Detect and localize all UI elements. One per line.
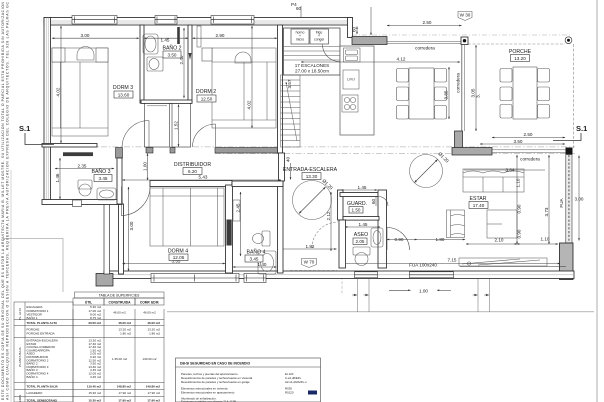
- dim 40 wall: [286, 156, 291, 179]
- svg-text:4.12: 4.12: [397, 57, 406, 62]
- svg-text:3.: 3.: [476, 94, 481, 98]
- cooktop: [342, 95, 358, 112]
- svg-text:12.50: 12.50: [201, 97, 213, 102]
- svg-text:60: 60: [296, 6, 302, 11]
- bano3 corredera pocket bar: [63, 152, 93, 156]
- bano4 bathtub: [258, 251, 276, 274]
- svg-text:1.00: 1.00: [143, 162, 148, 171]
- svg-text:1.10: 1.10: [541, 237, 550, 242]
- guard north wall: [340, 193, 378, 197]
- entrada west wall (bano4 east): [278, 181, 284, 273]
- dim 2.40 bano2: [179, 28, 184, 98]
- window W1 top: [72, 16, 117, 25]
- room label distribuidor: [174, 162, 211, 175]
- stair treads upper: [284, 47, 341, 61]
- top exterior wall: [44, 18, 352, 26]
- svg-text:TOTAL PLANTA BAJA: TOTAL PLANTA BAJA: [27, 385, 59, 389]
- svg-text:corredera: corredera: [520, 157, 540, 162]
- entry axis arrow line: [370, 7, 372, 35]
- dim 3.73 estar: [544, 155, 549, 244]
- porch roof dash-dot line: [352, 34, 570, 36]
- right exterior wall: [566, 155, 572, 244]
- svg-text:13.20: 13.20: [514, 56, 526, 61]
- dim 3.00 dorm4: [129, 187, 135, 271]
- svg-text:ENTRADA-ESCALERA: ENTRADA-ESCALERA: [283, 167, 338, 173]
- distribuidor north wall stub left: [146, 148, 153, 154]
- W70 banner: [302, 259, 317, 268]
- svg-text:1.45: 1.45: [161, 38, 170, 43]
- dim 3.00 dorm3: [52, 33, 139, 38]
- window bottom bano4: [244, 274, 266, 283]
- svg-text:DB-SI SEGURIDAD EN CASO DE: DB-SI SEGURIDAD EN CASO DE INCENDIO: [180, 362, 250, 366]
- svg-text:12.05: 12.05: [173, 255, 185, 260]
- distribuidor north wall stub right: [170, 148, 175, 154]
- svg-text:1.80 m2: 1.80 m2: [120, 331, 131, 335]
- svg-text:PORCHE ENTRADA: PORCHE ENTRADA: [27, 331, 55, 335]
- svg-text:1.45: 1.45: [358, 185, 367, 190]
- guard door arc small: [379, 197, 389, 207]
- svg-text:1.00: 1.00: [419, 288, 428, 293]
- svg-text:SEMIS.: SEMIS.: [18, 394, 22, 402]
- svg-text:TABLA DE SUPERFICIES: TABLA DE SUPERFICIES: [99, 294, 140, 298]
- svg-text:3.00: 3.00: [81, 33, 90, 38]
- svg-text:corredera: corredera: [456, 73, 461, 93]
- svg-text:ESTE DOCUMENTO ES COPIA DE SU: ESTE DOCUMENTO ES COPIA DE SU ORIGINAL D…: [1, 1, 5, 400]
- svg-text:corredera: corredera: [415, 46, 435, 51]
- window W3 top: [211, 16, 254, 25]
- partition bano2/dorm2: [188, 25, 192, 103]
- room label bano3: [91, 168, 112, 182]
- svg-text:Ø1.20: Ø1.20: [437, 151, 450, 164]
- leader L-line to table: [3, 239, 63, 293]
- section line S.1 dash across plan: [55, 146, 575, 148]
- svg-text:Elementos estructurales en apa: Elementos estructurales en aparcamiento: [181, 391, 235, 395]
- svg-text:BAÑO 2: BAÑO 2: [162, 45, 181, 52]
- dorm3 door arc: [122, 121, 149, 148]
- svg-text:micro: micro: [296, 38, 304, 42]
- svg-text:5.43: 5.43: [199, 175, 208, 180]
- dim 4.02 dorm3: [56, 26, 62, 143]
- svg-text:GUARD.: GUARD.: [347, 201, 367, 207]
- svg-text:3.50: 3.50: [514, 139, 523, 144]
- window W2 top: [155, 16, 177, 25]
- closet dorm3: [145, 104, 170, 148]
- P4 marker line: [291, 2, 302, 18]
- svg-text:ASI COMO CUALQUIER REPRODUCCIO: ASI COMO CUALQUIER REPRODUCCION O CESION…: [6, 1, 10, 400]
- bano3 south window: [73, 200, 82, 207]
- svg-text:1.80 m2: 1.80 m2: [149, 331, 160, 335]
- dim 1.10 estar: [517, 237, 558, 245]
- svg-text:0.90: 0.90: [517, 229, 522, 238]
- porch chairs right: [538, 69, 550, 119]
- room label guard: [347, 201, 367, 213]
- svg-text:FUA 100x240: FUA 100x240: [409, 263, 437, 268]
- svg-text:13.30: 13.30: [306, 174, 318, 179]
- partition dorm4/bano4: [226, 185, 233, 273]
- svg-text:3.00: 3.00: [575, 197, 584, 202]
- svg-text:27.00 x 18.50cm: 27.00 x 18.50cm: [295, 69, 329, 74]
- dim 3.55 dorm4: [123, 259, 226, 264]
- comedor table: [409, 68, 434, 119]
- svg-text:BAÑO 3: BAÑO 3: [91, 168, 110, 175]
- room label dorm3: [113, 85, 133, 98]
- dorm2 door arc: [193, 124, 216, 147]
- svg-text:3.45 m2: 3.45 m2: [90, 375, 101, 379]
- up arrow stair: [286, 82, 297, 141]
- bano4 pocket door dark bar: [227, 220, 232, 246]
- estar north wall horizontal: [452, 148, 492, 156]
- bano2 toilet: [147, 57, 163, 71]
- dim 2.50 estar top: [492, 132, 565, 138]
- planta baja rows: [27, 339, 157, 379]
- dim 1.40 bano4: [233, 262, 277, 267]
- partition dorm3/bano2: [140, 25, 144, 103]
- page frame left: [10, 170, 12, 402]
- S.1 right: [553, 124, 587, 141]
- svg-text:ESTAR: ESTAR: [470, 196, 487, 202]
- svg-text:0.90: 0.90: [517, 204, 522, 213]
- svg-text:Revestimientos de paredes y te: Revestimientos de paredes y techos/suelo…: [181, 380, 250, 384]
- dorm2 lamp semicircle: [235, 52, 251, 63]
- svg-text:46.00 m2: 46.00 m2: [143, 311, 156, 315]
- svg-text:17.90 m2: 17.90 m2: [118, 391, 131, 395]
- bano4 shelf: [233, 200, 240, 221]
- svg-text:33.50 m2: 33.50 m2: [88, 321, 101, 325]
- svg-text:1.82: 1.82: [306, 244, 315, 249]
- room label bano4: [245, 249, 266, 263]
- island sink unit: [344, 48, 361, 62]
- svg-text:4.02: 4.02: [247, 100, 252, 109]
- total semisotano row: [27, 399, 161, 402]
- svg-text:15.30 m2: 15.30 m2: [88, 391, 101, 395]
- porch corner marker circle top-right: [565, 37, 572, 44]
- stair lower flight: [281, 75, 301, 147]
- svg-text:1.52: 1.52: [174, 121, 179, 130]
- svg-text:BAÑO 1: BAÑO 1: [27, 315, 38, 320]
- porche rows: [27, 327, 161, 335]
- room label estar: [469, 196, 488, 209]
- turning circle 1: [293, 178, 334, 219]
- dorm2 nightstand: [202, 48, 212, 61]
- dim 4.12 entrada: [301, 57, 460, 63]
- svg-text:TOTAL SEMISOTANO: TOTAL SEMISOTANO: [27, 399, 58, 402]
- estar armchair: [447, 210, 465, 238]
- dim 2.12 entrada: [326, 192, 331, 251]
- svg-text:3.45: 3.45: [99, 176, 108, 181]
- bottom-left corner block: [96, 274, 113, 287]
- S.1 left: [19, 124, 54, 145]
- dorm3 nightstand right: [96, 48, 108, 62]
- dark pier below window W2: [177, 27, 180, 44]
- bano3 east wall: [117, 158, 122, 204]
- dim 1.82 entry: [283, 244, 337, 249]
- dorm4 bed: [150, 188, 224, 246]
- svg-text:17.90 m2: 17.90 m2: [118, 399, 131, 402]
- svg-text:1.35.00 m2: 1.35.00 m2: [112, 357, 127, 361]
- dim 3.85 comedor: [444, 67, 450, 119]
- bottom wall inner face line estar: [460, 266, 566, 268]
- entry north wall segment (hatched): [352, 37, 387, 45]
- porch table: [513, 67, 537, 119]
- dorm3 south wall: [42, 144, 97, 148]
- svg-text:13.60: 13.60: [118, 93, 130, 98]
- dim 2.10 estar: [466, 238, 517, 245]
- entrance door dashed arc: [312, 222, 338, 248]
- svg-text:17.90 m2: 17.90 m2: [147, 399, 160, 402]
- svg-text:W 70: W 70: [304, 260, 315, 265]
- dim 1.45 aseo: [345, 222, 380, 227]
- svg-text:2.12: 2.12: [326, 211, 331, 220]
- svg-text:46.00 m2: 46.00 m2: [118, 321, 131, 325]
- svg-text:W 30: W 30: [460, 13, 471, 18]
- svg-text:46.00 m2: 46.00 m2: [113, 311, 126, 315]
- dorm2 bed: [212, 48, 276, 128]
- top wall step down at entry: [348, 18, 353, 38]
- svg-text:R0120: R0120: [285, 391, 294, 395]
- svg-text:3.64: 3.64: [506, 168, 515, 173]
- W30 banner: [458, 12, 472, 21]
- svg-text:LAVADERO: LAVADERO: [27, 391, 44, 395]
- guard/aseo divider: [343, 217, 379, 221]
- svg-text:FUA: FUA: [559, 197, 564, 207]
- svg-text:1.50: 1.50: [352, 208, 361, 213]
- svg-text:PL. ALTA: PL. ALTA: [18, 308, 22, 320]
- guard west wall: [338, 190, 344, 220]
- porch dashed boundary top: [468, 43, 565, 45]
- dorm4 door arc: [121, 187, 150, 216]
- estar sofa: [463, 169, 524, 192]
- dim 60 step: [352, 26, 358, 34]
- svg-text:0.90: 0.90: [395, 237, 404, 242]
- dim 1.46 bano3: [55, 158, 60, 199]
- svg-text:DORM 3: DORM 3: [113, 85, 133, 91]
- svg-text:7.15: 7.15: [448, 258, 457, 263]
- svg-text:110.40 m2: 110.40 m2: [87, 385, 102, 389]
- dim 1.45 guard: [341, 185, 377, 190]
- room label entrada-escalera: [283, 167, 338, 180]
- left exterior wall: [44, 18, 51, 205]
- svg-text:DISTRIBUIDOR: DISTRIBUIDOR: [174, 162, 211, 168]
- grade stake right pair: [473, 279, 490, 312]
- estar north corredera: [492, 150, 566, 153]
- partition dorm2/stair-entrada: [278, 25, 283, 153]
- svg-text:2.45: 2.45: [236, 203, 241, 212]
- svg-text:2.35: 2.35: [78, 164, 87, 169]
- entrada east wall lower: [338, 247, 361, 271]
- dim 60 guard door: [371, 197, 376, 206]
- island dishwasher LVVJ: [343, 70, 359, 89]
- dim 1.00 below wall: [389, 288, 451, 293]
- dim 5.43 distribuidor: [123, 175, 282, 181]
- svg-text:CONSTRUIDA: CONSTRUIDA: [109, 300, 132, 304]
- room label dorm2: [196, 89, 216, 102]
- dim 1.52 closets: [174, 105, 179, 147]
- dim 2.35 bano3: [55, 164, 114, 169]
- svg-text:PORCHE: PORCHE: [509, 49, 532, 55]
- dorm4 west cavity wall outer: [104, 204, 110, 274]
- dim 2.50 entry top: [387, 20, 462, 26]
- dim 0.90 aseo door: [387, 237, 417, 242]
- svg-text:BAÑO 4: BAÑO 4: [246, 249, 265, 256]
- dorm3 lamp semicircle: [77, 47, 94, 61]
- svg-text:148.80 m2: 148.80 m2: [117, 385, 132, 389]
- section planta alta rows: [27, 305, 157, 320]
- svg-text:40: 40: [286, 156, 291, 162]
- svg-text:1.45: 1.45: [359, 222, 368, 227]
- svg-text:8.75 m2: 8.75 m2: [90, 316, 101, 320]
- bano4 toilet: [253, 231, 271, 246]
- svg-text:TOTAL PLANTA ALTA: TOTAL PLANTA ALTA: [27, 321, 58, 325]
- svg-text:congel: congel: [314, 38, 324, 42]
- bottom exterior wall: [104, 271, 574, 279]
- window bottom dorm4 (double): [151, 274, 239, 283]
- room label bano2: [162, 45, 181, 59]
- svg-text:2.10: 2.10: [495, 238, 504, 243]
- porch column C1 with dot: [461, 37, 468, 45]
- svg-text:S.1: S.1: [19, 124, 30, 133]
- dim 2.45 bano4: [236, 192, 241, 256]
- svg-text:6.20: 6.20: [188, 169, 197, 174]
- dorm4 west cavity wall inner: [119, 204, 124, 274]
- svg-text:3.50: 3.50: [168, 53, 177, 58]
- bano4 north wall: [232, 181, 283, 187]
- bottom right corner block: [560, 243, 574, 280]
- leader vertical from plan to table area: [127, 72, 129, 292]
- svg-text:17.40: 17.40: [473, 203, 485, 208]
- dim 7.15 bottom: [346, 258, 560, 264]
- total planta alta row: [27, 321, 161, 325]
- dim 3.50 estar top: [480, 139, 565, 144]
- aseo sink: [371, 228, 383, 247]
- svg-text:3.85: 3.85: [444, 90, 449, 99]
- svg-text:17 ESCALONES: 17 ESCALONES: [295, 63, 329, 68]
- svg-text:1.40: 1.40: [258, 262, 267, 267]
- svg-text:2.50: 2.50: [524, 132, 533, 137]
- stair text: [295, 63, 329, 74]
- total planta baja row: [27, 385, 161, 389]
- svg-text:1.10: 1.10: [516, 178, 521, 187]
- dorm3 bed: [52, 48, 108, 136]
- svg-text:1.80: 1.80: [436, 237, 445, 242]
- wall dorm2 side of distribuidor: [215, 148, 281, 154]
- room label aseo: [353, 232, 368, 245]
- estar coffee table: [487, 210, 517, 238]
- svg-text:3.00: 3.00: [129, 221, 134, 230]
- dim 1.80: [417, 237, 465, 242]
- dim 1.00 distribuidor: [143, 154, 148, 181]
- svg-text:3.73: 3.73: [544, 207, 549, 216]
- bano3 south wall: [42, 200, 122, 205]
- turning circle 2: [410, 151, 450, 187]
- dorm4 north wall: [150, 181, 232, 187]
- window FUA in bottom wall left: [355, 272, 378, 278]
- kitchen island: [340, 46, 374, 135]
- stair block outline: [284, 28, 341, 75]
- svg-text:15.30 m2: 15.30 m2: [88, 399, 101, 402]
- svg-text:2.05: 2.05: [356, 239, 365, 244]
- svg-text:LVVJ: LVVJ: [347, 78, 355, 82]
- bano3 toilet: [78, 180, 92, 196]
- ground line below building: [167, 311, 594, 313]
- dorm3 nightstand: [52, 48, 65, 62]
- estar NE column black: [566, 148, 573, 155]
- table frame: [14, 292, 164, 402]
- bano2 pocket door mark: [189, 53, 192, 60]
- room label porche: [509, 49, 532, 62]
- kitchen door arc: [323, 45, 340, 62]
- svg-text:3.57: 3.57: [287, 79, 292, 88]
- svg-text:60: 60: [352, 26, 357, 32]
- estar NW corner wall stub vertical: [455, 131, 463, 148]
- comedor chairs left: [397, 69, 409, 120]
- svg-text:COMP. EDIF.: COMP. EDIF.: [140, 300, 159, 304]
- aseo west wall: [339, 220, 346, 268]
- kitchen tall unit 1: [291, 29, 309, 44]
- svg-text:DORM 4: DORM 4: [168, 249, 188, 255]
- porch east corredera (left side of porch): [462, 44, 465, 131]
- porch dashed boundary right: [573, 44, 575, 148]
- dim 4.02 dorm2: [247, 26, 253, 128]
- kitchen unit labels: [296, 31, 325, 42]
- estar bench radiator: [459, 258, 547, 266]
- svg-text:1.46: 1.46: [55, 173, 60, 182]
- svg-text:46.00 m2: 46.00 m2: [147, 321, 160, 325]
- svg-text:A2-s1,d0/A2FL-s: A2-s1,d0/A2FL-s: [285, 380, 307, 384]
- dorm2 wardrobe lines: [197, 26, 201, 47]
- guard/aseo east wall: [378, 190, 387, 268]
- kitchen tall unit 2: [310, 29, 329, 44]
- lavadero row: [27, 391, 161, 395]
- window FUA in bottom wall right: [410, 272, 454, 278]
- closet shelf lines: [147, 105, 167, 107]
- closet dorm2: [172, 104, 191, 148]
- dim 3.64 sofa: [464, 168, 545, 173]
- bano3 sink: [97, 188, 116, 200]
- bano3 east wall stub: [116, 148, 123, 159]
- svg-text:149.80 m2: 149.80 m2: [146, 385, 161, 389]
- svg-text:BAÑO 4: BAÑO 4: [27, 374, 38, 379]
- porch dashed edge near estar wall: [570, 230, 572, 243]
- svg-text:130.00 m2: 130.00 m2: [142, 357, 157, 361]
- svg-text:DORM 2: DORM 2: [196, 89, 216, 95]
- aseo toilet: [353, 247, 370, 266]
- aseo door arc: [387, 228, 410, 251]
- bano2 sink: [143, 34, 158, 54]
- svg-text:ÚTIL: ÚTIL: [85, 299, 92, 304]
- DB-SI box frame: [176, 358, 321, 402]
- svg-text:PLANTA BAJA: PLANTA BAJA: [18, 347, 22, 367]
- svg-text:60: 60: [371, 198, 376, 204]
- dim 2.90 dorm2: [193, 33, 278, 38]
- comedor chairs right: [435, 69, 447, 120]
- dim 3.00 right: [575, 156, 584, 241]
- dim 1.45 bano2: [144, 38, 188, 43]
- entry sliding door corredera top: [387, 40, 462, 45]
- porch chairs left: [500, 69, 512, 119]
- svg-text:2.50: 2.50: [423, 20, 432, 25]
- svg-text:17.90 m2: 17.90 m2: [147, 391, 160, 395]
- svg-text:4.02: 4.02: [56, 87, 61, 96]
- svg-text:S.1: S.1: [576, 124, 587, 133]
- bano2 south wall: [141, 100, 192, 103]
- svg-text:2.90: 2.90: [216, 33, 225, 38]
- svg-text:ASEO: ASEO: [354, 232, 368, 238]
- entry porch dashed line bottom: [290, 270, 337, 272]
- vertical chain estar x517: [516, 155, 522, 244]
- room label dorm4: [168, 249, 188, 261]
- page frame right: [596, 0, 598, 402]
- dim 3.05 porch: [471, 45, 481, 131]
